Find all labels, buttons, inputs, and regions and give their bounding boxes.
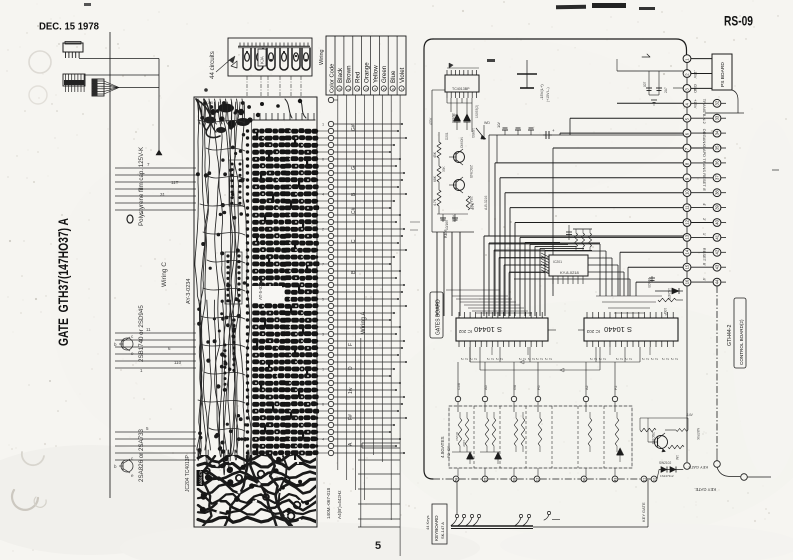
diode D1 (1S953) [453, 114, 461, 121]
svg-text:Green: Green [381, 65, 388, 83]
svg-text:2: 2 [495, 358, 499, 360]
resistor R zigzag under diode [658, 298, 676, 302]
wire [29, 51, 51, 73]
node AY-3-0234 white gap label [252, 286, 282, 302]
svg-text:470K: 470K [429, 117, 433, 125]
svg-text:36: 36 [715, 160, 720, 165]
svg-text:11: 11 [146, 327, 151, 332]
wire row7 [553, 147, 683, 149]
svg-text:CONTROL BOARD(2): CONTROL BOARD(2) [739, 319, 744, 365]
svg-text:2: 2 [594, 358, 598, 360]
resistor R right of Q203 [668, 445, 684, 449]
svg-text:2: 2 [666, 358, 670, 360]
node key contacts group2 [519, 514, 522, 517]
wire comb group 2 to PCB [115, 332, 196, 334]
wire nest A inner verticals [524, 242, 526, 316]
wire from CN2 [85, 74, 159, 76]
svg-text:33: 33 [715, 115, 720, 120]
resistor R network left [437, 142, 441, 158]
svg-text:KBAPD: KBAPD [702, 144, 707, 158]
svg-text:40: 40 [715, 219, 720, 224]
node connector column P1 (1-16) [683, 55, 691, 63]
svg-text:PS BOARD: PS BOARD [720, 62, 726, 87]
svg-text:G: G [351, 166, 357, 170]
svg-text:GATES BOARD: GATES BOARD [436, 299, 442, 335]
svg-text:Wiring C: Wiring C [161, 262, 168, 287]
svg-text:1: 1 [322, 368, 324, 372]
node PS BOARD box [691, 58, 712, 60]
wire main vertical harness line [109, 32, 111, 498]
node terminal circles and wiring lines [328, 121, 333, 126]
capacitor C bottom cluster [437, 213, 468, 215]
svg-text:5: 5 [383, 88, 387, 90]
svg-text:OM/ON: OM/ON [460, 137, 464, 148]
wire color-code columns [337, 95, 339, 470]
svg-text:Orange: Orange [364, 62, 371, 83]
wire dash-dot keyboard bus [433, 478, 453, 480]
wire IC204 to diodes [450, 98, 452, 112]
svg-text:14: 14 [685, 249, 690, 254]
svg-text:6: 6 [322, 158, 324, 162]
IC IC202 (S 10440) [456, 318, 548, 341]
wire from CN3 [119, 87, 159, 89]
svg-text:JC204 TC4013P: JC204 TC4013P [185, 454, 191, 492]
wire row6 [560, 132, 683, 134]
wire stray marks [772, 169, 779, 171]
PCB board GTH37 outline [194, 97, 317, 527]
svg-text:2: 2 [356, 88, 360, 90]
node gate input terminals [455, 396, 460, 401]
svg-text:39: 39 [715, 204, 720, 209]
wire row4 [617, 102, 683, 104]
svg-text:2: 2 [549, 358, 553, 360]
wire gates to bus stubs [457, 468, 459, 476]
svg-text:100P: 100P [663, 308, 667, 315]
svg-text:DEC. 15 1978: DEC. 15 1978 [39, 21, 99, 33]
diode D2 (1S953) [464, 114, 471, 121]
diode D gate 1 [467, 452, 474, 459]
svg-text:42: 42 [715, 249, 720, 254]
svg-text:C: C [351, 239, 357, 243]
svg-text:7: 7 [400, 88, 404, 90]
wire terminal 58 drop [456, 482, 458, 514]
svg-text:2SC945: 2SC945 [469, 165, 473, 178]
svg-text:Yellow: Yellow [372, 65, 379, 83]
PCB top corner traces [196, 99, 220, 138]
svg-text:1': 1' [702, 233, 707, 236]
svg-text:-15V(L+): -15V(L+) [539, 84, 544, 100]
wire comb group 1 to PCB [115, 167, 196, 169]
svg-text:6: 6 [392, 88, 396, 90]
wire dash-dot drops to main PCB [246, 76, 248, 97]
connector CN3 (fan-out plug) [92, 79, 104, 96]
svg-text:Brown: Brown [346, 65, 353, 83]
svg-text:IC 203: IC 203 [586, 329, 600, 334]
svg-text:F6: F6 [537, 386, 541, 390]
svg-text:Wiring A: Wiring A [361, 312, 367, 334]
svg-text:11T: 11T [171, 180, 179, 185]
wire keyboard common bus [451, 525, 533, 527]
svg-text:43: 43 [614, 478, 618, 482]
wire schematic border (gates board) [433, 39, 687, 54]
svg-text:37: 37 [715, 175, 720, 180]
diode D (1S2473) right of IC203 [655, 290, 683, 292]
svg-text:1: 1 [322, 123, 324, 127]
svg-text:SK-147 A: SK-147 A [440, 522, 445, 539]
svg-text:68K: 68K [433, 175, 437, 182]
wire block frame [431, 90, 433, 232]
wire to terminal 57 [717, 467, 740, 476]
node -15V(L+) power tap [526, 74, 528, 88]
svg-text:IC201: IC201 [553, 260, 562, 264]
svg-text:Red: Red [355, 71, 362, 83]
svg-text:15: 15 [685, 264, 690, 269]
wire dash-dot control board boundary [716, 286, 718, 450]
svg-text:4: 4 [374, 88, 378, 90]
svg-text:4': 4' [702, 203, 707, 206]
svg-text:4.7K: 4.7K [471, 202, 475, 210]
svg-text:GTH44-2: GTH44-2 [727, 325, 733, 346]
svg-text:KEY GATE: KEY GATE [688, 465, 708, 470]
svg-text:44: 44 [715, 279, 720, 284]
svg-text:58: 58 [455, 478, 459, 482]
svg-text:45K: 45K [433, 151, 437, 158]
svg-text:1: 1 [347, 88, 351, 90]
svg-text:Violet: Violet [399, 67, 406, 83]
IC IC203 (S 10440) [584, 318, 678, 341]
svg-text:2: 2 [646, 358, 650, 360]
svg-text:F2~C6: F2~C6 [446, 445, 451, 458]
svg-text:2: 2 [518, 358, 522, 360]
svg-text:4': 4' [702, 278, 707, 281]
svg-text:2: 2 [641, 358, 645, 360]
wire nest mid horizontals [489, 243, 600, 245]
svg-text:2: 2 [650, 358, 654, 360]
wire Wiring A trunk [360, 338, 362, 527]
svg-text:5: 5 [322, 298, 324, 302]
resistor R 4.7K mid [466, 196, 470, 210]
node bus terminal circles [453, 476, 459, 482]
svg-text:38: 38 [715, 190, 720, 195]
svg-text:KEYBOARD: KEYBOARD [434, 515, 439, 541]
node connector column P2 [713, 99, 721, 107]
svg-text:10/: 10/ [496, 122, 501, 128]
svg-text:SW2102: SW2102 [659, 461, 671, 465]
svg-text:10: 10 [685, 190, 690, 195]
transistor Q201 (2SC945) [454, 152, 465, 163]
svg-text:1M: 1M [675, 455, 679, 460]
svg-text:2: 2 [469, 358, 473, 360]
svg-text:1S2473x2: 1S2473x2 [660, 474, 674, 478]
svg-text:G#: G# [351, 124, 357, 131]
svg-text:TRANS: TRANS [702, 99, 707, 113]
svg-text:2: 2 [486, 358, 490, 360]
op-amp IC201 (KY-8-0218) [549, 255, 588, 276]
svg-text:100K: 100K [452, 214, 456, 222]
capacitor row 10uF [489, 134, 683, 136]
svg-text:16: 16 [685, 279, 690, 284]
svg-text:3: 3 [365, 88, 369, 90]
svg-text:+15V: +15V [693, 99, 698, 109]
svg-text:D201: D201 [445, 132, 449, 140]
transistor Q202 (2SA733) [454, 180, 465, 191]
svg-text:1S2473: 1S2473 [667, 288, 671, 300]
resistor pairs inside gates [458, 418, 462, 446]
svg-text:1S953: 1S953 [451, 113, 455, 123]
svg-text:AT-5-0234: AT-5-0234 [258, 279, 263, 300]
svg-text:S 10440: S 10440 [474, 325, 502, 334]
PCB key contact pattern rows [252, 129, 259, 134]
svg-text:8': 8' [702, 188, 707, 191]
wire gate cell bottoms [452, 451, 472, 453]
wire keyboard to key-gate [533, 526, 648, 528]
node KEYBOARD SK-147 A label [432, 504, 447, 544]
svg-text:33K: 33K [442, 165, 446, 172]
svg-text:2: 2 [540, 358, 544, 360]
svg-text:140M.-067-018: 140M.-067-018 [326, 487, 331, 519]
wire nested bus A [495, 162, 683, 164]
svg-text:4: 4 [322, 438, 324, 442]
capacitor C cluster right [651, 276, 653, 282]
svg-text:A60147H: A60147H [199, 469, 203, 485]
svg-text:1w: 1w [348, 387, 354, 394]
svg-text:2: 2 [589, 358, 593, 360]
svg-text:TC4013BP: TC4013BP [452, 87, 470, 91]
svg-text:2: 2 [460, 358, 464, 360]
svg-text:6: 6 [322, 403, 324, 407]
svg-text:KEY GATE.: KEY GATE. [694, 487, 716, 492]
svg-text:41: 41 [715, 234, 720, 239]
connector CN1 (top plug) [63, 43, 83, 52]
svg-text:100P: 100P [462, 440, 466, 447]
svg-text:Blue: Blue [390, 70, 397, 83]
PCB small contact board (44 circuits) [228, 38, 312, 76]
trimmer arrow [476, 128, 484, 138]
svg-text:8': 8' [702, 263, 707, 266]
node key contact right [547, 511, 550, 514]
capacitor cluster near PS [617, 70, 683, 72]
svg-text:220/25: 220/25 [647, 278, 651, 288]
svg-text:2: 2 [655, 358, 659, 360]
svg-text:A6: A6 [484, 385, 488, 390]
svg-text:KEY GATE: KEY GATE [641, 502, 646, 522]
resistor pack above IC201 [573, 228, 592, 230]
svg-text:GATE GTH37(147HO37) A: GATE GTH37(147HO37) A [56, 218, 71, 346]
svg-text:21: 21 [643, 478, 647, 482]
svg-text:-14V: -14V [686, 413, 694, 417]
svg-text:2: 2 [523, 358, 527, 360]
svg-text:5: 5 [375, 540, 381, 552]
svg-text:0: 0 [338, 88, 342, 90]
wire under PS board [705, 90, 738, 113]
node terminal 18 [684, 463, 691, 470]
PCB left-strip traces [195, 102, 203, 455]
connector CN2 (comb plug) [63, 74, 85, 86]
svg-text:C#6: C#6 [457, 383, 461, 390]
op-amp IC204 (TC4013BP) [445, 75, 479, 92]
svg-text:MATRIX: MATRIX [696, 428, 700, 441]
svg-text:25: 25 [484, 478, 488, 482]
wire nested bus B [483, 236, 485, 316]
wire vertical feed line [158, 59, 160, 151]
svg-text:31: 31 [160, 192, 166, 197]
wire upper feed verticals [496, 135, 498, 163]
svg-text:28: 28 [513, 478, 517, 482]
svg-text:C#: C# [351, 207, 357, 214]
svg-text:36: 36 [583, 478, 587, 482]
svg-text:-15V: -15V [693, 70, 698, 79]
wire row5 [570, 117, 683, 119]
node GATES BOARD label [430, 292, 443, 338]
svg-text:Black: Black [337, 67, 344, 83]
PCB left pad column [246, 129, 249, 132]
svg-text:A-B-3216: A-B-3216 [484, 196, 488, 210]
svg-text:4.7K: 4.7K [433, 198, 437, 206]
svg-text:(+15V L-): (+15V L-) [546, 87, 550, 102]
svg-text:7: 7 [322, 263, 324, 267]
svg-text:F: F [348, 343, 354, 346]
svg-text:F2: F2 [614, 386, 618, 390]
svg-text:+: + [552, 128, 555, 133]
svg-text:2: 2 [474, 358, 478, 360]
svg-text:2SA826 or 2SA733: 2SA826 or 2SA733 [138, 428, 145, 482]
svg-text:-100: -100 [206, 101, 213, 105]
diode pair key gate (1S2473) [657, 470, 659, 479]
svg-text:2: 2 [322, 228, 324, 232]
svg-text:2: 2 [675, 358, 679, 360]
svg-text:2A7: 2A7 [664, 87, 668, 93]
svg-text:44 circuits: 44 circuits [209, 51, 216, 79]
svg-text:10: 10 [653, 478, 657, 482]
svg-text:A4(B')=442Hz: A4(B')=442Hz [337, 490, 342, 519]
svg-text:2: 2 [544, 358, 548, 360]
wire horizontal jogs above IC202 [446, 289, 500, 291]
svg-text:34: 34 [715, 130, 720, 135]
svg-text:WD: WD [484, 121, 490, 125]
svg-text:2: 2 [491, 358, 495, 360]
svg-text:Color Code: Color Code [330, 64, 336, 93]
node 4.8 GATES dashed block [449, 406, 632, 468]
svg-text:G6: G6 [513, 385, 517, 390]
wire from CN1 [79, 58, 159, 60]
node terminal 57 [741, 474, 748, 481]
svg-text:10/16V: 10/16V [445, 219, 449, 230]
svg-text:ROAR: ROAR [455, 432, 459, 442]
svg-text:4: 4 [322, 193, 324, 197]
svg-text:35: 35 [715, 145, 720, 150]
svg-text:B.N.2: B.N.2 [702, 114, 707, 125]
svg-text:2: 2 [615, 358, 619, 360]
svg-text:IC 202: IC 202 [458, 329, 472, 334]
IC footprint pads mid strip [225, 252, 242, 304]
svg-text:AY-3-0234: AY-3-0234 [186, 279, 192, 304]
node key contacts group1 [455, 514, 458, 517]
wire pointer arrow to small board [216, 58, 232, 72]
wire loops under ICs [470, 361, 640, 363]
svg-text:13: 13 [685, 234, 690, 239]
svg-text:43: 43 [715, 264, 720, 269]
svg-text:KY-8-0218: KY-8-0218 [560, 270, 580, 275]
svg-text:4.8GATES: 4.8GATES [440, 436, 445, 458]
svg-text:2: 2 [620, 358, 624, 360]
transistor Q203 key gate [655, 436, 668, 449]
svg-text:110: 110 [174, 360, 182, 365]
svg-text:S 10440: S 10440 [604, 325, 632, 334]
svg-text:3: 3 [322, 333, 324, 337]
node CONTROL BOARD(2) label [734, 298, 746, 368]
svg-text:44 Keys: 44 Keys [425, 516, 430, 530]
wire IC pins to gate drops [457, 362, 459, 392]
svg-text:007: 007 [643, 81, 647, 87]
svg-text:KJA: KJA [260, 56, 265, 64]
svg-text:2SC945: 2SC945 [651, 432, 655, 444]
svg-text:1S953(2): 1S953(2) [475, 105, 479, 118]
svg-text:TRANS: TRANS [702, 158, 707, 172]
svg-text:2': 2' [702, 218, 707, 221]
svg-text:2: 2 [603, 358, 607, 360]
svg-text:1S953: 1S953 [471, 128, 475, 138]
svg-text:2: 2 [527, 358, 531, 360]
svg-text:A2: A2 [585, 385, 589, 390]
wire jogs above IC203 [596, 295, 662, 297]
svg-text:11: 11 [685, 205, 690, 210]
svg-text:F#: F# [348, 414, 354, 420]
svg-text:2: 2 [532, 358, 536, 360]
wire feed lines left [436, 232, 438, 316]
wire [556, 5, 586, 10]
svg-text:2: 2 [629, 358, 633, 360]
svg-text:D: D [348, 366, 354, 370]
svg-text:2: 2 [465, 358, 469, 360]
svg-text:ORGAN: ORGAN [702, 129, 707, 144]
svg-text:Wiring: Wiring [319, 49, 325, 65]
diode D gate 5 [617, 448, 624, 455]
svg-text:2: 2 [535, 358, 539, 360]
node terminal 16 [714, 461, 721, 468]
svg-text:12: 12 [685, 219, 690, 224]
svg-text:2: 2 [624, 358, 628, 360]
svg-text:RESET: RESET [702, 173, 707, 187]
svg-text:32: 32 [715, 100, 720, 105]
svg-text:RESET: RESET [702, 248, 707, 262]
wire bottom ladder rungs [362, 442, 400, 444]
wire comb group 3 to PCB [115, 431, 196, 433]
diode D gate 2 [495, 452, 502, 459]
svg-text:12: 12 [536, 478, 540, 482]
svg-text:RS-09: RS-09 [724, 13, 753, 29]
svg-text:2: 2 [670, 358, 674, 360]
resistor R left of Q203 [640, 428, 656, 432]
svg-text:2: 2 [661, 358, 665, 360]
